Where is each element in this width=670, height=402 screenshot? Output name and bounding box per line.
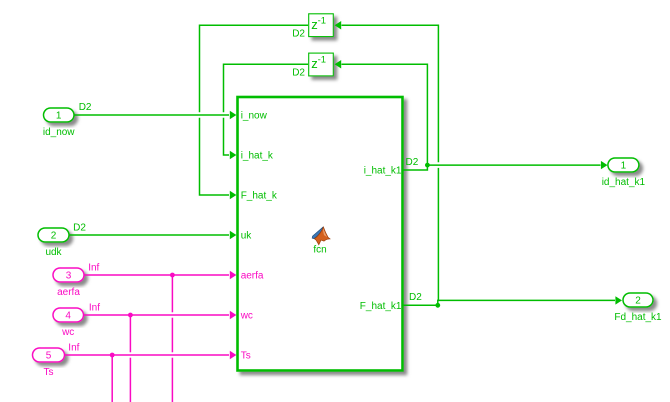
wire Z2 out to i_hat_k xyxy=(224,64,309,112)
svg-text:i_hat_k1: i_hat_k1 xyxy=(364,166,402,177)
svg-text:Fd_hat_k1: Fd_hat_k1 xyxy=(614,312,662,323)
svg-text:Inf: Inf xyxy=(88,263,99,274)
wire aerfa branch down xyxy=(171,275,173,312)
svg-text:F_hat_k: F_hat_k xyxy=(241,191,278,202)
wire wc to U1 xyxy=(84,314,230,316)
inport 3 aerfa xyxy=(53,268,84,282)
svg-text:D2: D2 xyxy=(292,29,305,40)
outport 1 id_hat_k1 xyxy=(608,158,639,172)
inport 1 id_now xyxy=(44,108,75,122)
svg-text:wc: wc xyxy=(61,327,74,338)
junction on wc wire xyxy=(128,313,133,318)
MATLAB logo icon xyxy=(312,227,330,245)
svg-text:2: 2 xyxy=(635,296,641,307)
svg-text:D2: D2 xyxy=(73,223,86,234)
wire Ts to U1 xyxy=(65,354,230,356)
svg-text:Ts: Ts xyxy=(44,367,54,378)
svg-text:D2: D2 xyxy=(292,68,305,79)
svg-text:5: 5 xyxy=(46,351,52,362)
svg-text:4: 4 xyxy=(65,311,71,322)
inport 4 wc xyxy=(53,308,84,322)
wire Z1 out to F_hat_k xyxy=(200,25,309,112)
svg-text:i_hat_k: i_hat_k xyxy=(241,151,274,162)
svg-text:D2: D2 xyxy=(409,292,422,303)
wire Ts branch down xyxy=(111,355,113,402)
svg-text:3: 3 xyxy=(66,271,72,282)
svg-text:i_now: i_now xyxy=(241,111,268,122)
svg-text:D2: D2 xyxy=(79,102,92,113)
svg-text:1: 1 xyxy=(56,111,62,122)
wire id_now to U1 xyxy=(74,114,229,116)
junction on Ts wire xyxy=(110,353,115,358)
wire U1 F_hat_k1 out with jog xyxy=(403,300,615,305)
svg-text:Inf: Inf xyxy=(89,303,100,314)
svg-text:id_now: id_now xyxy=(43,127,75,138)
svg-text:D2: D2 xyxy=(406,157,419,168)
svg-text:wc: wc xyxy=(240,311,253,322)
junction F_hat_k1 xyxy=(435,303,440,308)
wire U1 i_hat_k1 out with jog xyxy=(403,165,600,170)
inport 5 Ts xyxy=(33,348,65,362)
svg-text:fcn: fcn xyxy=(313,245,326,256)
svg-text:-1: -1 xyxy=(318,15,326,26)
svg-text:Ts: Ts xyxy=(241,351,251,362)
svg-text:udk: udk xyxy=(45,247,62,258)
unit delay block Z1 xyxy=(309,14,334,37)
wire feedback to Z2 xyxy=(342,64,428,165)
svg-text:F_hat_k1: F_hat_k1 xyxy=(360,301,402,312)
svg-text:Inf: Inf xyxy=(68,343,79,354)
svg-text:uk: uk xyxy=(241,231,253,242)
svg-text:id_hat_k1: id_hat_k1 xyxy=(602,177,646,188)
junction on aerfa wire xyxy=(170,273,175,278)
svg-text:aerfa: aerfa xyxy=(241,271,264,282)
svg-text:2: 2 xyxy=(51,231,57,242)
wire wc branch down xyxy=(129,315,131,352)
svg-text:1: 1 xyxy=(621,161,627,172)
MATLAB Function block U1 xyxy=(238,97,403,371)
inport 2 udk xyxy=(38,228,69,242)
svg-text:aerfa: aerfa xyxy=(57,287,80,298)
svg-text:-1: -1 xyxy=(318,55,326,66)
wire udk to U1 xyxy=(69,234,229,236)
wire aerfa to U1 xyxy=(84,274,229,276)
wire feedback to Z1 xyxy=(437,168,439,301)
outport 2 Fd_hat_k1 xyxy=(623,293,653,307)
junction i_hat_k1 xyxy=(425,163,430,168)
unit delay block Z2 xyxy=(309,53,334,76)
